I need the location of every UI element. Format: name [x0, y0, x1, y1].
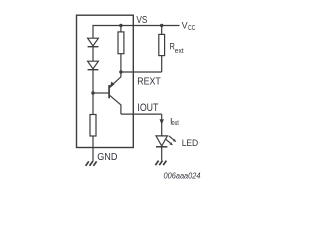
resistor R2 (lower) [90, 115, 96, 137]
value label Rext [170, 42, 185, 55]
ground (left) [86, 161, 97, 166]
wire rail to Rext [161, 26, 163, 35]
wire R1 to emitter node [120, 54, 122, 72]
wire R2 to ground [92, 136, 94, 162]
wire IOUT [121, 113, 162, 115]
diode D2 [88, 61, 99, 69]
ground (LED) [155, 161, 166, 166]
wire LED to ground [161, 147, 163, 161]
svg-text:CC: CC [188, 25, 195, 32]
svg-text:out: out [172, 120, 179, 127]
wire diode chain top [92, 25, 94, 38]
current label Iout [170, 117, 179, 128]
node R1 top [119, 24, 122, 27]
resistor Rext [159, 34, 165, 55]
wire D2 to bottom resistor [92, 70, 94, 115]
node emitter junction [119, 70, 122, 73]
LED D3 [156, 136, 176, 147]
svg-text:IOUT: IOUT [137, 102, 158, 114]
svg-text:LED: LED [182, 138, 199, 148]
svg-text:VS: VS [136, 15, 147, 26]
IC box [77, 15, 134, 147]
wire REXT pin [121, 71, 162, 73]
transistor Q1 [109, 72, 121, 114]
wire VS rail [93, 25, 180, 27]
diode D1 [88, 38, 99, 47]
wire D1-D2 [92, 47, 94, 62]
resistor R1 (upper internal) [118, 32, 124, 54]
node Rext top [160, 24, 163, 27]
svg-text:V: V [182, 20, 188, 30]
arrow Iout current [160, 119, 164, 124]
svg-text:ext: ext [175, 46, 185, 55]
svg-text:REXT: REXT [137, 76, 161, 88]
node base junction [91, 91, 94, 94]
wire base [93, 92, 109, 94]
svg-text:GND: GND [97, 152, 117, 163]
wire rail to R1 [120, 26, 122, 32]
wire Rext bottom [161, 56, 163, 72]
svg-text:006aaa024: 006aaa024 [164, 170, 201, 180]
wire IOUT down to LED [161, 114, 163, 136]
net label VCC [182, 20, 196, 32]
